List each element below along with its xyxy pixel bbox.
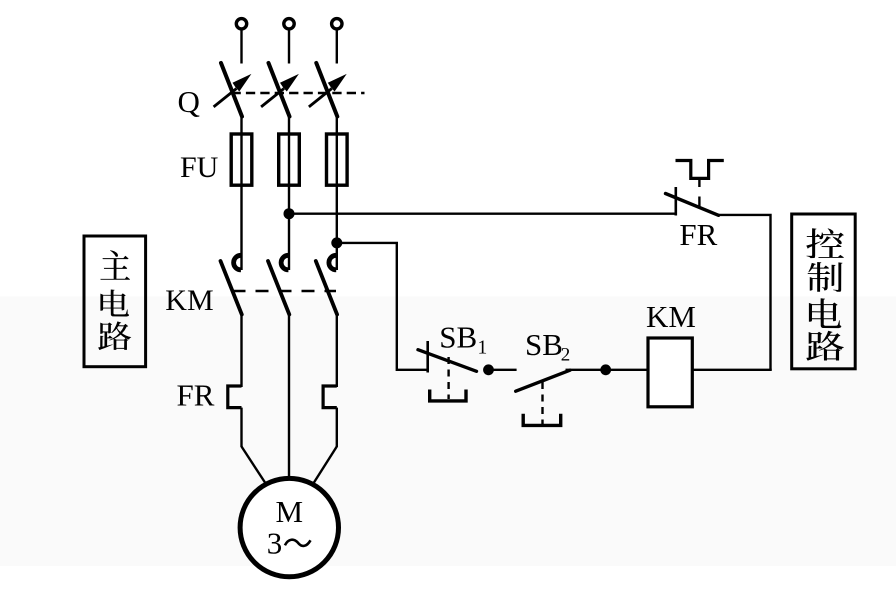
svg-text:M: M [276,494,304,529]
FR NC contact blade [666,194,719,216]
wire SB1 dot to SB2 [489,369,517,371]
label char 主 [100,250,130,280]
wire SB2 to dot [566,369,606,371]
label char 电 (left) [100,290,129,317]
pushbutton SB2 blade (NO) [516,370,570,391]
label char 控 [806,228,844,258]
wire L3 terminal to switch Q [336,29,338,63]
fuse FU pole 2 body [279,134,300,185]
node A junction dot on L2 [284,208,295,219]
svg-text:3: 3 [267,526,283,561]
control-circuit label box 控制电路 [792,214,856,369]
svg-text:2: 2 [561,345,571,366]
wire SB2 dot to KM coil [606,369,648,371]
pushbutton SB2 dashed operator link [541,382,543,424]
wire fuse FU pole 3 to contactor KM [336,184,338,270]
wire KM contact 2 down to motor [288,315,290,481]
wire through fuse FU pole 3 [336,136,338,185]
contactor coil KM rectangle [648,338,692,407]
wire node A to FR contact (control circuit top rail) [289,212,676,214]
pushbutton SB1 dashed operator link [447,357,449,399]
label char 路 (right) [806,331,844,361]
pushbutton SB2 operator bracket [523,414,561,426]
wire FR heater 3 to motor [336,408,338,447]
wire L1 terminal to switch Q [240,29,242,63]
svg-text:1: 1 [478,338,488,359]
thermal relay FR heater element phase 3 [323,386,337,408]
main-circuit label box 主电路 [84,236,146,367]
wire KM contact 1 to FR heater 1 [240,315,242,388]
pushbutton SB1 operator bracket [430,390,466,401]
contactor KM main contact 3 blade [316,261,337,315]
switch Q pole 3 blade [316,63,337,117]
wire fuse FU pole 2 to contactor KM [288,184,290,270]
pushbutton SB1 blade (NC) [418,350,477,372]
switch Q pole 2 blade [269,63,290,117]
svg-text:FR: FR [679,217,717,252]
faint scan band [0,297,896,567]
wire lead into motor right [313,447,337,485]
wire Q pole 3 to fuse FU [336,117,338,136]
label char 路 (left) [98,321,131,350]
pushbutton SB1 fixed terminal tick [426,341,429,373]
svg-text:Q: Q [178,84,200,119]
switch Q pole 1 blade [221,63,242,117]
svg-text:KM: KM [646,299,696,334]
thermal relay FR trip element symbol [676,161,724,179]
thermal relay FR heater element phase 1 [228,386,242,408]
wire Q pole 1 to fuse FU [240,117,242,136]
wire node B right then down to SB1 [337,243,428,370]
svg-text:SB: SB [525,327,563,362]
node B junction dot on L3 [331,237,342,248]
contactor KM dashed linkage line [233,290,337,293]
wire fuse FU pole 1 to contactor KM [240,184,242,270]
supply terminal circle L2 [284,19,294,29]
FR trip dashed link [698,197,700,208]
svg-text:KM: KM [165,284,213,317]
contactor KM main contact 2 blade [268,261,289,315]
switch Q dashed linkage line [232,92,365,95]
node junction dot after SB2 [600,364,611,375]
wire FR contact to right rail [719,215,771,371]
wire lead into motor left [242,447,267,485]
FR trip stub [698,178,700,187]
contactor KM main contact 1 fixed-contact arc [234,255,241,270]
supply terminal circle L3 [332,19,342,29]
contactor KM main contact 1 blade [221,261,242,315]
svg-text:FR: FR [177,378,215,413]
label char 电 (right) [809,298,841,328]
fuse FU pole 3 body [327,134,348,185]
motor M circle [240,478,338,576]
wire L2 terminal to switch Q [288,29,290,63]
switch Q pole 2 actuating arrow [261,89,284,107]
wire through fuse FU pole 1 [240,136,242,185]
contactor KM main contact 2 fixed-contact arc [281,255,288,270]
svg-text:FU: FU [180,151,219,184]
fuse FU pole 1 body [231,134,252,185]
svg-text:SB: SB [439,319,477,354]
node junction dot after SB1 [483,364,494,375]
wire FR heater 1 to motor [240,408,242,447]
wire KM coil to right rail [692,369,771,371]
switch Q pole 3 actuating arrow [309,89,332,107]
wire through fuse FU pole 2 [288,136,290,185]
switch Q pole 1 actuating arrow [214,89,237,107]
wire Q pole 2 to fuse FU [288,117,290,136]
FR NC contact fixed terminal tick [674,187,677,216]
label char 制 [808,262,843,292]
supply terminal circle L1 [236,19,246,29]
contactor KM main contact 3 fixed-contact arc [329,255,336,270]
wire KM contact 3 to FR heater 3 [336,315,338,388]
